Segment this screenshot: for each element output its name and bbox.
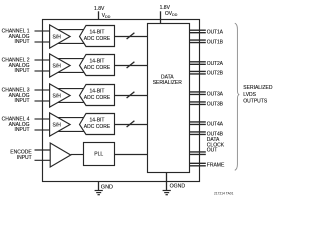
bus slash 1 bbox=[127, 33, 135, 39]
svg-text:S/H: S/H bbox=[53, 93, 62, 99]
bus slash 4 bbox=[127, 121, 135, 127]
svg-text:14-BIT: 14-BIT bbox=[89, 118, 104, 124]
wire OUT2B pair bbox=[190, 71, 206, 74]
svg-text:INPUT: INPUT bbox=[15, 127, 30, 133]
ADC core 3 bbox=[80, 85, 115, 106]
svg-text:FRAME: FRAME bbox=[207, 162, 225, 168]
buffer encode bbox=[50, 143, 70, 167]
wire OUT2A pair bbox=[190, 62, 206, 65]
svg-text:OUT1A: OUT1A bbox=[207, 30, 224, 36]
wire PLL to serializer bbox=[115, 154, 148, 156]
svg-text:ADC CORE: ADC CORE bbox=[84, 95, 111, 101]
svg-text:PLL: PLL bbox=[94, 152, 103, 158]
svg-text:INPUT: INPUT bbox=[15, 98, 30, 104]
wire channel4 inputs bbox=[35, 119, 51, 130]
wire encode inputs bbox=[35, 150, 51, 160]
wire data clock out pair bbox=[190, 152, 206, 155]
svg-text:S/H: S/H bbox=[53, 122, 62, 128]
ADC core 1 bbox=[80, 26, 115, 47]
svg-text:INPUT: INPUT bbox=[17, 155, 32, 161]
bus slash 2 bbox=[127, 62, 135, 68]
supply OVDD stub bbox=[160, 11, 162, 23]
wire channel4 differential pair bbox=[57, 118, 85, 132]
wire channel3 differential pair bbox=[57, 89, 85, 103]
ADC core 4 bbox=[80, 114, 115, 135]
svg-text:14-BIT: 14-BIT bbox=[89, 59, 104, 65]
svg-text:OGND: OGND bbox=[170, 184, 186, 190]
svg-text:SERIALIZER: SERIALIZER bbox=[153, 80, 183, 86]
svg-text:OUT2B: OUT2B bbox=[207, 71, 224, 77]
ADC core 2 bbox=[80, 55, 115, 76]
ground OGND symbol bbox=[163, 173, 171, 195]
wire OUT4B pair bbox=[190, 132, 206, 135]
wire channel3 inputs bbox=[35, 90, 51, 101]
svg-text:SERIALIZED: SERIALIZED bbox=[243, 85, 273, 91]
svg-text:ADC CORE: ADC CORE bbox=[84, 36, 111, 42]
svg-text:VDD: VDD bbox=[102, 13, 111, 19]
svg-text:14-BIT: 14-BIT bbox=[89, 89, 104, 95]
op-amp S/H 4 bbox=[50, 113, 71, 136]
wire encode buffer to PLL bbox=[71, 154, 84, 156]
svg-text:1.8V: 1.8V bbox=[94, 6, 105, 12]
data serializer U5 bbox=[148, 24, 190, 173]
svg-text:S/H: S/H bbox=[53, 63, 62, 69]
svg-text:OUT3B: OUT3B bbox=[207, 101, 224, 107]
svg-text:INPUT: INPUT bbox=[15, 39, 30, 45]
op-amp S/H 1 bbox=[50, 25, 71, 48]
svg-text:OUT: OUT bbox=[207, 148, 218, 154]
wire OUT1B pair bbox=[190, 40, 206, 43]
wire frame pair bbox=[190, 163, 206, 166]
svg-text:OUT4A: OUT4A bbox=[207, 121, 224, 127]
wire channel2 inputs bbox=[35, 60, 51, 71]
wire ADC4 to serializer bbox=[115, 124, 148, 126]
svg-text:OVDD: OVDD bbox=[165, 11, 178, 17]
wire ADC3 to serializer bbox=[115, 95, 148, 97]
wire ADC1 to serializer bbox=[115, 36, 148, 38]
PLL U6 bbox=[84, 143, 115, 166]
wire OUT3B pair bbox=[190, 102, 206, 105]
svg-text:ADC CORE: ADC CORE bbox=[84, 124, 111, 130]
brace serialized outputs bbox=[235, 23, 240, 170]
op-amp S/H 3 bbox=[50, 84, 71, 107]
svg-text:ADC CORE: ADC CORE bbox=[84, 65, 111, 71]
ground GND symbol bbox=[95, 182, 103, 195]
wire OUT1A pair bbox=[190, 30, 206, 33]
wire channel1 inputs bbox=[35, 31, 51, 42]
svg-text:S/H: S/H bbox=[53, 34, 62, 40]
svg-text:14-BIT: 14-BIT bbox=[89, 30, 104, 36]
svg-text:OUTPUTS: OUTPUTS bbox=[243, 99, 268, 105]
svg-text:OUT2A: OUT2A bbox=[207, 61, 224, 67]
wire channel1 differential pair bbox=[57, 30, 85, 44]
svg-text:GND: GND bbox=[101, 184, 113, 190]
supply VDD stub bbox=[98, 11, 100, 19]
wire channel2 differential pair bbox=[57, 59, 85, 73]
svg-text:OUT3A: OUT3A bbox=[207, 91, 224, 97]
chip outline bbox=[43, 20, 200, 182]
svg-text:LVDS: LVDS bbox=[243, 92, 256, 98]
wire OUT4A pair bbox=[190, 122, 206, 125]
bus slash 3 bbox=[127, 92, 135, 98]
op-amp S/H 2 bbox=[50, 54, 71, 77]
svg-text:217214 TA01: 217214 TA01 bbox=[214, 192, 234, 196]
svg-text:OUT1B: OUT1B bbox=[207, 39, 224, 45]
svg-text:INPUT: INPUT bbox=[15, 68, 30, 74]
wire ADC2 to serializer bbox=[115, 65, 148, 67]
wire OUT3A pair bbox=[190, 92, 206, 95]
